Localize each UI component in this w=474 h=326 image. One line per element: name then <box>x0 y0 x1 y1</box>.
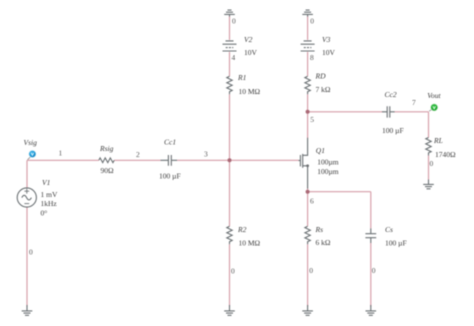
wire Q1 source lead to node6 <box>307 188 309 192</box>
wire junction node3 to R2 <box>229 160 231 226</box>
junction node 3 <box>228 158 232 162</box>
ground (RL bottom) <box>423 180 434 189</box>
svg-text:100µm: 100µm <box>317 158 339 167</box>
wire node6 horizontal to Cs <box>308 191 371 193</box>
wire V1 top to corner <box>26 160 28 207</box>
svg-text:0: 0 <box>430 159 434 168</box>
wire Rs to bottom ground <box>307 244 309 306</box>
battery V2 <box>223 41 237 51</box>
svg-text:0: 0 <box>309 266 313 275</box>
ground (R2 bottom) <box>224 305 235 315</box>
resistor RL <box>426 138 431 156</box>
capacitor Cc2 <box>382 106 395 117</box>
svg-text:5: 5 <box>310 115 314 124</box>
svg-text:V1: V1 <box>42 178 50 187</box>
resistor Rs <box>305 226 310 244</box>
wire node2 Rsig to Cc1 <box>114 159 160 161</box>
svg-text:1kHz: 1kHz <box>41 199 58 208</box>
svg-text:100 µF: 100 µF <box>159 172 181 181</box>
resistor R1 <box>227 76 232 94</box>
voltage source V1 <box>17 188 36 207</box>
wire RL to ground <box>428 156 430 180</box>
wire Cc2 to node7 corner <box>394 111 428 113</box>
svg-text:7 kΩ: 7 kΩ <box>316 85 331 94</box>
wire RD to node5 junction <box>307 94 309 112</box>
ground (top of V2 column) <box>224 10 235 17</box>
junction node 5 <box>306 110 310 114</box>
svg-text:R1: R1 <box>237 73 246 82</box>
svg-text:0: 0 <box>231 267 235 276</box>
svg-text:0: 0 <box>310 16 314 25</box>
svg-text:RL: RL <box>433 136 443 145</box>
wire Cs top lead <box>370 192 372 229</box>
battery V3 <box>301 41 315 51</box>
svg-text:V2: V2 <box>244 35 253 44</box>
svg-text:100 µF: 100 µF <box>385 239 407 248</box>
svg-text:Rs: Rs <box>315 225 324 234</box>
resistor RD <box>305 76 310 94</box>
svg-text:R2: R2 <box>237 225 247 234</box>
svg-text:0: 0 <box>29 248 33 257</box>
svg-text:10V: 10V <box>322 48 336 57</box>
svg-text:1 mV: 1 mV <box>41 190 58 199</box>
resistor R2 <box>227 226 232 244</box>
ground (Cs bottom) <box>366 305 377 315</box>
svg-text:90Ω: 90Ω <box>101 166 115 175</box>
svg-text:8: 8 <box>310 53 314 62</box>
svg-text:3: 3 <box>204 150 208 159</box>
ground (top of V3 column) <box>302 10 313 17</box>
svg-text:0: 0 <box>372 266 376 275</box>
wire node7 corner down to RL <box>428 112 430 138</box>
svg-text:0°: 0° <box>41 208 48 217</box>
probe Vout <box>429 104 438 111</box>
svg-text:100µm: 100µm <box>317 167 339 176</box>
svg-text:Cc2: Cc2 <box>385 90 397 99</box>
wire Cs to bottom ground <box>370 243 372 307</box>
svg-text:RD: RD <box>315 71 327 80</box>
svg-text:4: 4 <box>232 53 236 62</box>
ground (Rs bottom) <box>302 305 313 315</box>
svg-text:7: 7 <box>412 98 416 107</box>
svg-text:6 kΩ: 6 kΩ <box>316 238 331 247</box>
probe Vsig <box>28 151 36 160</box>
svg-text:V3: V3 <box>322 35 331 44</box>
wire R2 to bottom ground <box>229 244 231 306</box>
resistor Rsig <box>99 158 114 163</box>
wire node3 Cc1 to gate <box>177 159 298 161</box>
svg-text:10 MΩ: 10 MΩ <box>239 239 261 248</box>
wire top ground to V2 <box>229 16 231 40</box>
svg-text:Vout: Vout <box>427 91 441 100</box>
svg-text:2: 2 <box>136 150 140 159</box>
svg-text:1740Ω: 1740Ω <box>435 150 456 159</box>
svg-text:0: 0 <box>232 17 236 26</box>
svg-text:6: 6 <box>310 197 314 206</box>
svg-text:10V: 10V <box>244 48 258 57</box>
wire V2 to R1 <box>229 52 231 76</box>
svg-text:1: 1 <box>59 149 63 158</box>
svg-text:Cs: Cs <box>385 225 393 234</box>
svg-text:Q1: Q1 <box>316 146 325 155</box>
wire node6 junction down to Rs <box>307 192 309 227</box>
wire main horizontal node1-2 <box>27 159 99 161</box>
svg-text:10 MΩ: 10 MΩ <box>239 87 261 96</box>
svg-text:Vsig: Vsig <box>24 138 38 147</box>
wire node5 to Q1 drain lead <box>307 112 309 138</box>
svg-text:Cc1: Cc1 <box>164 137 176 146</box>
svg-text:Rsig: Rsig <box>99 144 114 153</box>
wire top ground to V3 <box>307 16 309 40</box>
wire V3 to RD <box>307 52 309 76</box>
capacitor Cs <box>365 228 376 243</box>
svg-text:100 µF: 100 µF <box>382 126 404 135</box>
wire node5 horizontal to Cc2 <box>308 111 383 113</box>
junction node 6 <box>306 190 310 194</box>
capacitor Cc1 <box>161 155 178 166</box>
ground (V1 bottom) <box>22 305 33 315</box>
wire R1 to junction node3 <box>229 94 231 160</box>
transistor Q1 <box>299 138 310 189</box>
wire V1 bottom to ground <box>26 207 28 306</box>
